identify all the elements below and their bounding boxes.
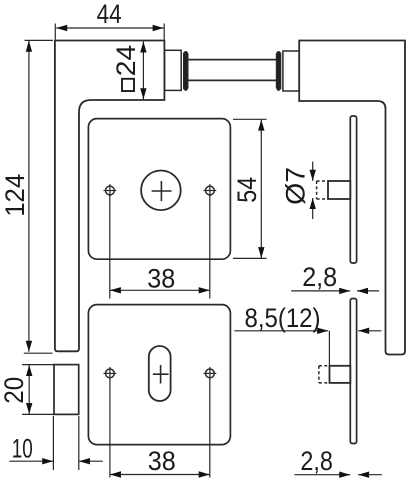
svg-text:124: 124 <box>0 174 30 217</box>
arrowheads <box>26 25 370 478</box>
dim 38 upper <box>109 196 111 299</box>
collar left <box>184 52 189 91</box>
square symbol of sq24 label <box>122 79 134 91</box>
plate lower (rosette side view) <box>350 299 356 444</box>
svg-text:2,8: 2,8 <box>300 446 333 476</box>
dim D7 <box>312 162 314 181</box>
dim 54 <box>233 118 267 120</box>
dim 2,8 lower <box>294 474 350 476</box>
2,8 lower <box>339 472 350 478</box>
rosette lower (front view) <box>88 305 230 445</box>
svg-text:38: 38 <box>147 264 175 294</box>
dim 8,5(12) <box>234 330 328 332</box>
handle side view (block + grip) <box>299 41 405 355</box>
pin lower dashed part <box>319 366 330 383</box>
D7 <box>310 170 316 181</box>
dim 44 <box>54 24 56 40</box>
crosshair L <box>153 373 169 375</box>
svg-text:2,8: 2,8 <box>302 262 337 292</box>
38 upper <box>110 287 121 293</box>
screw hole LL <box>106 369 115 378</box>
pin upper solid <box>328 181 350 199</box>
handle front view (L-shaped lever) <box>55 41 164 352</box>
38 lower <box>110 471 121 477</box>
crosshair U <box>152 190 172 192</box>
neck right (side view) <box>283 51 299 91</box>
screw hole UR <box>206 186 215 195</box>
keyhole oval <box>149 346 171 401</box>
svg-text:Ø7: Ø7 <box>280 167 310 205</box>
collar right <box>276 52 281 91</box>
spindle shaft <box>188 59 276 61</box>
dim 20 <box>22 364 54 366</box>
8,5(12) <box>317 328 328 334</box>
screw hole LR <box>206 369 215 378</box>
dim 38 lower <box>109 379 111 478</box>
svg-text:44: 44 <box>97 0 122 29</box>
dim 10 <box>52 416 54 470</box>
screw hole UL <box>106 186 115 195</box>
10 <box>42 458 53 464</box>
dim 124 <box>25 39 54 41</box>
124 <box>26 41 32 52</box>
54 <box>258 120 264 131</box>
center circle U <box>141 171 181 211</box>
pin upper dashed part <box>317 181 328 199</box>
svg-text:54: 54 <box>232 177 262 203</box>
2,8 upper <box>339 288 350 294</box>
dim sq24 <box>142 42 144 100</box>
44 <box>56 25 67 31</box>
grip end block (20x10 section) <box>54 365 79 415</box>
plate upper (rosette side view) <box>350 116 356 263</box>
20 <box>26 365 32 376</box>
svg-text:24: 24 <box>111 45 141 77</box>
dim 2,8 upper <box>291 290 350 292</box>
rosette upper (front view) <box>88 119 230 260</box>
svg-text:38: 38 <box>148 446 176 476</box>
pin lower solid <box>330 366 351 383</box>
sq24 <box>140 42 146 53</box>
svg-text:8,5(12): 8,5(12) <box>245 303 321 333</box>
svg-text:10: 10 <box>12 434 33 464</box>
neck left (front view) <box>165 50 182 90</box>
svg-text:20: 20 <box>0 377 29 404</box>
